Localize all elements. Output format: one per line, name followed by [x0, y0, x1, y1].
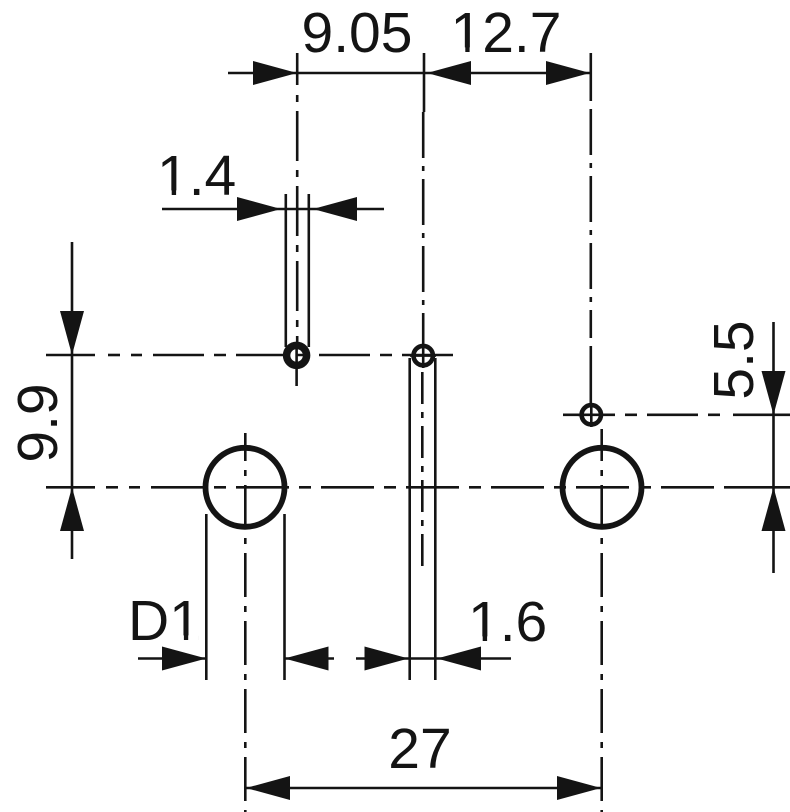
top dimension line — [228, 72, 590, 75]
svg-text:9.9: 9.9 — [6, 383, 70, 462]
27 arrow tip left pointing left — [246, 776, 290, 800]
9.9 arrow down tip y355 — [60, 311, 84, 355]
arrow tip at x590 pointing right — [546, 61, 590, 85]
arrow tip at slot1 left pointing right — [237, 197, 281, 221]
1.4 dimension line right tail — [313, 208, 384, 211]
svg-text:D1: D1 — [128, 589, 201, 653]
D1 arrow tip left pointing right — [162, 647, 206, 671]
5.5 arrow down tip y415 — [762, 371, 786, 415]
pin2 crosshair horizontal — [410, 354, 436, 357]
27 arrow tip right pointing right — [557, 776, 601, 800]
horizontal centerline y355 left tick — [46, 354, 95, 357]
big circle right — [563, 448, 642, 527]
svg-text:1.4: 1.4 — [157, 144, 236, 208]
1.6 dimension line left tail — [356, 657, 408, 660]
horizontal centerline y487 right tick — [730, 486, 790, 489]
svg-text:27: 27 — [388, 717, 451, 781]
extension tick x424 — [423, 53, 426, 112]
D1 extension line right tangent — [283, 514, 286, 680]
arrow tip at x297 pointing right — [253, 61, 297, 85]
1.6 arrow tip right pointing left — [437, 647, 481, 671]
slot2 centerline — [421, 372, 424, 567]
1.4 dimension line left tail — [162, 208, 281, 211]
right pin crosshair vertical — [590, 403, 593, 427]
glyph foot patches to mimic Helvetica digit 1 — [161, 47, 497, 641]
centerline pin2 vertical x424 — [422, 112, 425, 344]
centerline rightpin vertical x590 — [589, 100, 592, 338]
horizontal centerline y355 dash-dot — [108, 354, 120, 357]
svg-text:1.6: 1.6 — [468, 590, 547, 654]
1.4 dimension line crossing slot — [281, 208, 313, 211]
pin2 pad ring — [414, 346, 433, 365]
5.5 arrow up tip y487 — [762, 487, 786, 531]
1.6 dimension line crossing slot — [408, 657, 437, 660]
right pin crosshair horizontal — [578, 413, 604, 416]
slot1 right edge — [307, 194, 310, 347]
horizontal centerline y487 left tick — [46, 486, 95, 489]
slot2 right edge — [434, 358, 437, 680]
svg-text:5.5: 5.5 — [702, 320, 766, 399]
extension tick x590 — [589, 53, 592, 100]
extension tick x297 — [296, 53, 299, 85]
9.9 dimension line — [71, 242, 74, 559]
slot2 left edge — [408, 358, 411, 680]
D1 dimension line left with tail — [138, 657, 206, 660]
arrow tip at x427 pointing left — [427, 61, 471, 85]
D1 dimension line right tail — [285, 657, 335, 660]
horizontal centerline y415 left stub — [563, 413, 580, 416]
horizontal centerline y487 dash-dot — [106, 486, 118, 489]
big circle left D1 — [206, 448, 285, 527]
centerline big circle left vertical — [244, 433, 247, 812]
svg-text:12.7: 12.7 — [451, 1, 562, 65]
right pin pad ring — [582, 405, 601, 424]
D1 arrow tip right pointing left — [285, 647, 329, 671]
horizontal centerline y415 dash-dot — [604, 413, 730, 416]
pin1 centerline below — [295, 368, 298, 386]
slot1 left edge — [284, 194, 287, 347]
centerline slot1 vertical x297 — [296, 88, 299, 342]
pin2 crosshair vertical — [422, 344, 425, 368]
pin1 pad ring — [287, 345, 307, 365]
svg-text:9.05: 9.05 — [302, 1, 413, 65]
pin1 crosshair vertical — [295, 344, 298, 367]
27 dimension line — [246, 787, 601, 790]
9.9 arrow up tip y487 — [60, 487, 84, 531]
1.6 dimension line right tail — [437, 657, 511, 660]
arrow tip at slot1 right pointing left — [313, 197, 357, 221]
5.5 dimension line — [772, 322, 775, 573]
D1 extension line left tangent — [205, 514, 208, 680]
horizontal centerline y415 right tick — [733, 413, 790, 416]
1.6 arrow tip left pointing right — [365, 647, 409, 671]
centerline big circle right vertical — [600, 429, 603, 812]
